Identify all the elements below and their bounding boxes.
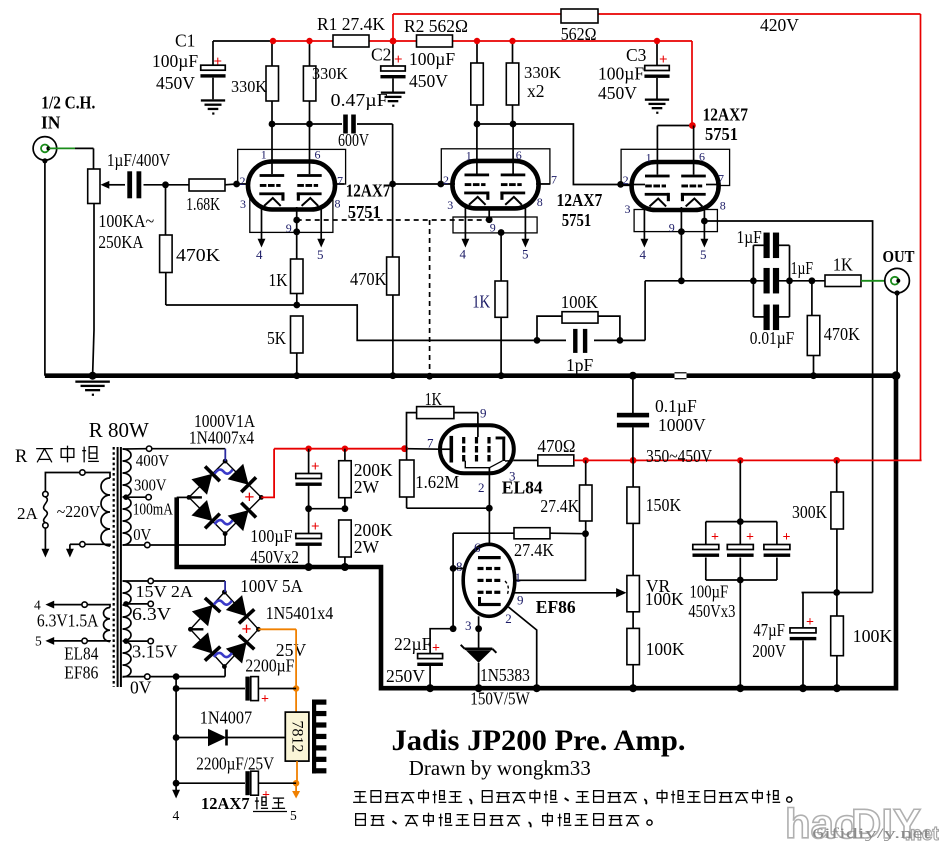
- svg-text:EL84: EL84: [502, 478, 543, 498]
- svg-text:3: 3: [447, 198, 453, 212]
- svg-text:6.3V1.5A: 6.3V1.5A: [37, 611, 99, 631]
- svg-text:1pF: 1pF: [566, 355, 594, 375]
- svg-text:7: 7: [718, 172, 724, 186]
- svg-text:470K: 470K: [824, 324, 860, 344]
- svg-text:1µF/400V: 1µF/400V: [107, 150, 171, 170]
- svg-text:330K: 330K: [312, 64, 349, 83]
- svg-text:100µF: 100µF: [152, 51, 198, 71]
- svg-text:5: 5: [317, 247, 324, 262]
- svg-text:9: 9: [286, 221, 292, 235]
- svg-text:12AX7: 12AX7: [346, 181, 391, 201]
- svg-text:12AX7: 12AX7: [557, 190, 603, 210]
- svg-text:450Vx3: 450Vx3: [688, 601, 735, 621]
- svg-text:350~450V: 350~450V: [646, 446, 712, 466]
- svg-text:2200µF: 2200µF: [245, 656, 294, 676]
- svg-text:1K: 1K: [472, 292, 490, 312]
- svg-text:C1: C1: [175, 31, 195, 51]
- svg-text:2200µF/25V: 2200µF/25V: [196, 754, 274, 774]
- svg-text:5751: 5751: [562, 210, 591, 230]
- svg-text:1N4007x4: 1N4007x4: [189, 428, 254, 448]
- svg-text:1/2 C.H.: 1/2 C.H.: [41, 93, 95, 113]
- svg-text:1N5401x4: 1N5401x4: [266, 603, 334, 623]
- svg-text:C2: C2: [371, 45, 391, 65]
- svg-text:2: 2: [505, 611, 512, 626]
- svg-text:7812: 7812: [289, 721, 306, 753]
- svg-text:1.68K: 1.68K: [186, 194, 220, 214]
- svg-text:250KA: 250KA: [98, 232, 143, 252]
- svg-text:100K: 100K: [853, 626, 893, 646]
- svg-text:1: 1: [466, 149, 472, 163]
- svg-text:1µF: 1µF: [791, 258, 814, 278]
- svg-text:6: 6: [516, 148, 522, 162]
- svg-text:7: 7: [551, 173, 557, 187]
- svg-text:6ifidiy/y.net: 6ifidiy/y.net: [812, 826, 931, 842]
- svg-text:6: 6: [474, 540, 481, 555]
- svg-text:R1 27.4K: R1 27.4K: [317, 14, 385, 34]
- svg-text:7: 7: [427, 436, 434, 451]
- svg-text:1K: 1K: [425, 389, 443, 409]
- svg-text:1µF: 1µF: [737, 227, 762, 247]
- svg-text:450V: 450V: [409, 71, 448, 91]
- svg-text:1N4007: 1N4007: [200, 708, 253, 728]
- svg-text:100µF: 100µF: [690, 582, 729, 602]
- svg-text:600V: 600V: [338, 130, 369, 150]
- svg-text:+: +: [806, 615, 814, 630]
- svg-text:100KA~: 100KA~: [98, 211, 154, 231]
- svg-text:+: +: [432, 641, 440, 656]
- svg-text:0V: 0V: [133, 525, 152, 544]
- svg-text:+: +: [394, 52, 403, 68]
- svg-text:2W: 2W: [354, 537, 380, 557]
- svg-text:3: 3: [240, 197, 246, 211]
- svg-text:100µF: 100µF: [409, 49, 455, 69]
- svg-text:R2 562Ω: R2 562Ω: [404, 16, 468, 36]
- svg-text:4: 4: [640, 247, 647, 262]
- svg-text:2: 2: [623, 173, 629, 187]
- svg-text:EL84: EL84: [64, 644, 98, 664]
- svg-text:+: +: [244, 487, 254, 507]
- svg-text:6.3V: 6.3V: [132, 604, 171, 624]
- svg-text:1K: 1K: [269, 270, 288, 290]
- svg-text:+: +: [311, 459, 320, 475]
- svg-text:330K: 330K: [231, 77, 268, 96]
- svg-text:+: +: [241, 619, 251, 639]
- svg-text:6: 6: [315, 148, 321, 162]
- svg-text:470K: 470K: [176, 245, 220, 265]
- svg-text:9: 9: [517, 593, 524, 608]
- svg-text:+: +: [783, 530, 791, 545]
- svg-text:450V: 450V: [598, 83, 637, 103]
- svg-text:250V: 250V: [386, 666, 425, 686]
- svg-text:1K: 1K: [833, 255, 853, 275]
- svg-text:8: 8: [335, 197, 341, 211]
- svg-text:27.4K: 27.4K: [540, 496, 579, 516]
- svg-text:5: 5: [522, 247, 529, 262]
- svg-text:R 80W: R 80W: [89, 418, 149, 442]
- svg-text:+: +: [214, 54, 223, 70]
- svg-text:8: 8: [537, 195, 543, 209]
- svg-text:5751: 5751: [705, 124, 738, 144]
- svg-text:+: +: [746, 530, 754, 545]
- svg-text:100mA: 100mA: [133, 500, 174, 519]
- svg-text:4: 4: [460, 247, 467, 262]
- svg-text:0.01µF: 0.01µF: [750, 328, 795, 348]
- svg-text:~220V: ~220V: [57, 502, 101, 521]
- svg-text:9: 9: [490, 221, 496, 235]
- svg-text:100K: 100K: [561, 292, 599, 312]
- svg-text:C3: C3: [626, 45, 647, 65]
- svg-text:Jadis JP200 Pre. Amp.: Jadis JP200 Pre. Amp.: [392, 724, 686, 757]
- svg-text:470Ω: 470Ω: [538, 436, 576, 456]
- svg-text:100V 5A: 100V 5A: [240, 576, 303, 596]
- svg-text:4: 4: [173, 808, 180, 823]
- svg-text:100K: 100K: [646, 639, 685, 659]
- svg-text:2A: 2A: [17, 504, 39, 523]
- svg-text:0.1µF: 0.1µF: [655, 396, 697, 416]
- svg-text:+: +: [261, 692, 269, 707]
- svg-text:x2: x2: [527, 81, 545, 101]
- svg-text:5751: 5751: [348, 202, 381, 222]
- svg-text:1: 1: [646, 151, 652, 165]
- svg-text:0V: 0V: [130, 678, 152, 698]
- svg-text:150V/5W: 150V/5W: [470, 689, 530, 709]
- svg-text:200V: 200V: [752, 641, 786, 661]
- svg-text:2W: 2W: [354, 477, 380, 497]
- svg-text:5: 5: [290, 808, 297, 823]
- svg-text:3: 3: [465, 618, 472, 633]
- svg-text:9: 9: [480, 406, 487, 421]
- svg-text:7: 7: [337, 174, 343, 188]
- svg-text:4: 4: [256, 247, 263, 262]
- svg-text:IN: IN: [41, 113, 61, 133]
- svg-text:400V: 400V: [136, 451, 170, 470]
- svg-text:12AX7: 12AX7: [703, 105, 749, 125]
- svg-text:9: 9: [669, 221, 675, 235]
- svg-text:+: +: [711, 530, 719, 545]
- svg-text:330K: 330K: [524, 63, 562, 82]
- svg-text:562Ω: 562Ω: [561, 24, 597, 44]
- svg-text:450V: 450V: [156, 73, 195, 93]
- svg-text:8: 8: [456, 559, 463, 574]
- svg-text:2: 2: [478, 480, 485, 495]
- svg-text:1: 1: [515, 570, 522, 585]
- svg-text:450Vx2: 450Vx2: [250, 547, 299, 567]
- svg-text:300K: 300K: [792, 502, 827, 522]
- svg-text:R: R: [15, 447, 28, 467]
- svg-text:420V: 420V: [760, 15, 799, 35]
- svg-text:1: 1: [261, 148, 267, 162]
- svg-text:Drawn by wongkm33: Drawn by wongkm33: [409, 756, 591, 780]
- svg-text:EF86: EF86: [64, 663, 98, 683]
- svg-text:100K: 100K: [645, 589, 684, 609]
- svg-text:3: 3: [625, 202, 631, 216]
- svg-text:300V: 300V: [134, 476, 167, 495]
- svg-text:150K: 150K: [646, 495, 682, 515]
- svg-text:5: 5: [35, 634, 42, 649]
- svg-text:8: 8: [720, 199, 726, 213]
- svg-text:5K: 5K: [267, 328, 286, 348]
- svg-text:100µF: 100µF: [598, 64, 644, 84]
- svg-text:3.15V: 3.15V: [132, 642, 178, 662]
- svg-text:1000V: 1000V: [658, 415, 706, 435]
- svg-text:47µF: 47µF: [753, 620, 785, 640]
- svg-text:27.4K: 27.4K: [514, 540, 554, 560]
- svg-text:15V 2A: 15V 2A: [136, 582, 194, 601]
- svg-text:22µF: 22µF: [394, 634, 432, 654]
- svg-text:EF86: EF86: [536, 597, 576, 617]
- svg-text:+: +: [659, 52, 668, 68]
- svg-text:2: 2: [443, 173, 449, 187]
- svg-text:12AX7: 12AX7: [201, 794, 250, 813]
- svg-text:6: 6: [699, 150, 705, 164]
- svg-text:1.62M: 1.62M: [415, 472, 459, 492]
- svg-text:+: +: [311, 519, 320, 535]
- svg-text:470K: 470K: [350, 269, 387, 289]
- svg-text:OUT: OUT: [883, 247, 915, 266]
- svg-text:100µF: 100µF: [250, 526, 292, 546]
- svg-text:5: 5: [700, 247, 707, 262]
- svg-text:2: 2: [240, 174, 246, 188]
- svg-text:1N5383: 1N5383: [480, 665, 530, 685]
- svg-text:0.47µF: 0.47µF: [331, 90, 388, 110]
